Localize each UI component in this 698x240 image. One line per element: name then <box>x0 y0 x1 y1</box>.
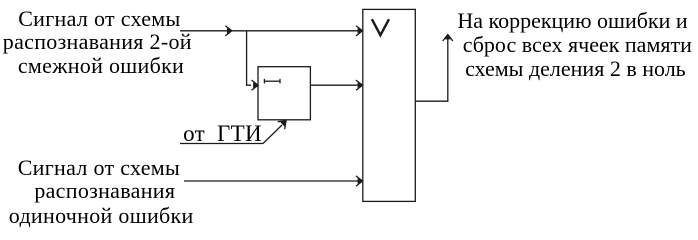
arrowhead at one-shot U2 clock input (pointing NE) <box>278 121 286 129</box>
arrowhead at output (pointing up) <box>443 35 453 42</box>
arrowhead mid of top wire <box>225 26 232 36</box>
wire: OR gate U1 output, right then up <box>415 36 448 102</box>
arrowhead at OR gate U1 bottom input <box>356 176 363 186</box>
label: signal from 2nd adjacent error recognition circuit <box>18 7 180 31</box>
wire: bottom input from single-error circuit to OR gate U1 <box>184 180 362 182</box>
arrowhead at OR gate U1 middle input <box>356 80 363 90</box>
one-shot U2 pulse-width symbol <box>264 79 280 84</box>
wire: branch from junction down to one-shot U2 input <box>247 31 251 85</box>
arrowhead at one-shot U2 input <box>252 80 259 90</box>
OR gate U1 function label V <box>372 19 389 35</box>
wire: GTI diagonal dynamic input into one-shot U2 <box>263 125 282 144</box>
label: output action - error correction and memory reset <box>457 9 687 33</box>
label: from GTI (clock pulse generator) <box>183 122 262 146</box>
one-shot pulse shaper U2 body <box>258 67 310 120</box>
wire: top input from 2nd-adjacent-error circuit to OR gate U1 <box>180 30 362 32</box>
wire: one-shot U2 output to OR gate U1 middle input <box>310 84 361 86</box>
arrowhead at OR gate U1 top input <box>356 26 363 36</box>
label: signal from single error recognition circuit <box>18 156 180 180</box>
wire: GTI underline lead <box>180 143 263 145</box>
OR gate U1 body <box>363 9 416 201</box>
